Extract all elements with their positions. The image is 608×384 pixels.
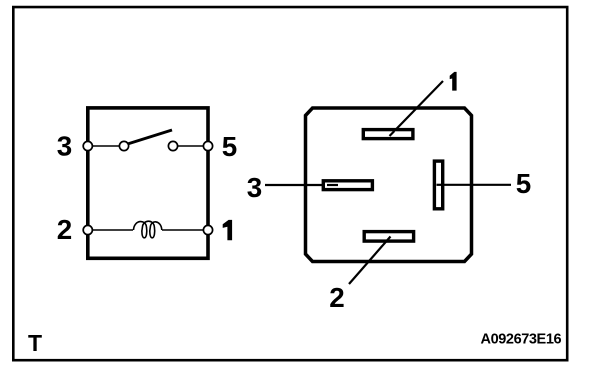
svg-text:A092673E16: A092673E16 xyxy=(481,332,562,348)
svg-text:2: 2 xyxy=(329,282,344,313)
svg-text:5: 5 xyxy=(222,131,237,162)
svg-text:2: 2 xyxy=(57,214,72,245)
svg-text:3: 3 xyxy=(57,131,72,162)
svg-text:T: T xyxy=(28,330,42,356)
svg-text:5: 5 xyxy=(516,168,531,199)
svg-text:3: 3 xyxy=(247,172,262,203)
